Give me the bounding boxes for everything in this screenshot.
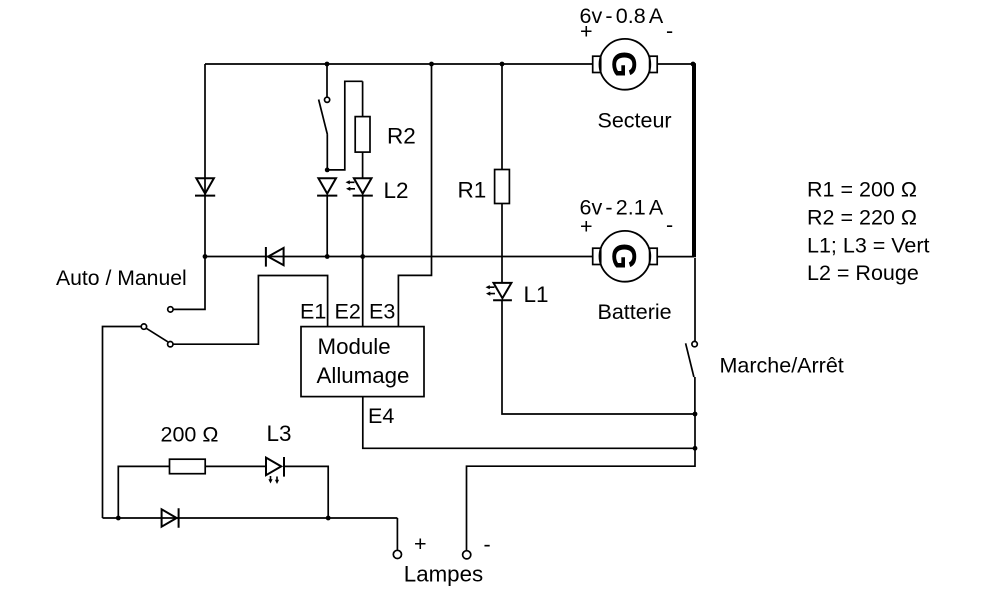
wire L1 down and right to switch [502,300,695,414]
wire upper branch left [118,466,169,518]
wire E4 [363,397,695,449]
wire thick right rail [692,63,696,257]
svg-text:R2: R2 [387,124,416,149]
svg-text:+: + [414,532,427,556]
wire L2 to bus [362,196,364,257]
svg-text:Module: Module [318,334,391,359]
switch Marche/Arret contact circle [692,341,697,346]
svg-text:R1: R1 [458,178,487,203]
generator Secteur right terminal box [650,56,658,72]
wire switch bottom [326,135,328,170]
LED L1 arrows [486,285,496,296]
wire E2 [362,257,364,327]
switch Auto/Manuel pole contact [141,324,146,329]
wire bus to AutoManuel top contact [173,257,205,310]
diode D3 on bus pointing left [266,247,284,267]
node bus x362 [360,254,365,259]
diode D2 middle [317,178,337,195]
wire R2 bottom lead [362,152,364,178]
generator Batterie left terminal box [593,248,601,264]
diode D1 left [195,178,215,195]
node junction top bus x327 [325,62,330,67]
node x695 y448 [693,446,698,451]
node switch-hook junction [325,168,330,173]
svg-text:R1 = 200 Ω: R1 = 200 Ω [807,178,917,202]
wire E3 [398,64,431,327]
resistor R1 [495,170,510,204]
svg-text:L1; L3 = Vert: L1; L3 = Vert [807,234,930,258]
svg-text:-: - [484,533,491,557]
svg-text:Lampes: Lampes [404,561,483,586]
wire R2 top lead [362,81,364,117]
node bottom x118 [116,516,121,521]
wire pole to left rail [103,327,142,519]
generator Batterie circle [600,231,651,282]
module box Module Allumage [301,327,424,397]
wire node to node [694,414,696,448]
wire to lampes minus [467,448,696,550]
wire R1 bottom lead [501,204,503,283]
generator Secteur circle [600,39,651,90]
wire rail to Marche switch [694,258,696,341]
node bottom x328 [326,516,331,521]
svg-text:E1: E1 [300,300,326,324]
node junction top bus x432 [429,62,434,67]
wire D2 to bus [326,196,328,257]
terminal lampes plus circle [393,550,401,558]
LED L2 arrows [346,180,356,191]
resistor R2 [355,117,370,153]
generator Secteur left terminal box [593,56,601,72]
wire R1 branch top [501,64,503,170]
svg-text:E3: E3 [369,300,395,324]
resistor 200ohm [170,459,206,474]
svg-text:L2: L2 [384,178,409,203]
LED L2 [353,178,373,195]
svg-text:L2 = Rouge: L2 = Rouge [807,261,919,285]
wire left branch vertical [204,64,206,257]
svg-text:Allumage: Allumage [317,363,410,388]
switch Marche/Arret blade [686,343,694,377]
svg-text:Marche/Arrêt: Marche/Arrêt [720,353,844,377]
svg-text:E4: E4 [368,404,394,428]
LED L1 [493,283,512,300]
terminal lampes minus circle [463,551,471,559]
switch Auto/Manuel blade [146,328,168,342]
svg-text:Secteur: Secteur [598,108,672,132]
wire R2 hook [327,81,362,170]
node bus x327 [325,254,330,259]
svg-text:-: - [666,19,673,43]
svg-text:G: G [605,51,643,77]
LED L3 pointing right [266,457,284,477]
svg-text:G: G [605,243,643,269]
svg-text:E2: E2 [335,300,361,324]
wire top bus [205,63,694,65]
svg-text:+: + [580,20,593,44]
svg-text:Batterie: Batterie [598,300,672,324]
switch Auto/Manuel top contact [168,307,173,312]
svg-text:R2 = 220 Ω: R2 = 220 Ω [807,205,917,229]
svg-text:Auto / Manuel: Auto / Manuel [56,267,187,290]
diode D4 bottom pointing right [162,508,179,528]
wire battery right [657,256,694,258]
generator Batterie right terminal box [650,248,658,264]
wire L3 right down [284,466,328,518]
svg-text:L3: L3 [267,421,292,446]
svg-text:-: - [666,213,673,237]
node junction top bus x502 [500,62,505,67]
wire to lampes plus [396,518,398,550]
wire bottom left rail corner [103,517,398,519]
node x695 y414 [693,412,698,417]
LED L3 arrows down [268,476,279,484]
switch S2 blade [319,100,328,135]
wire E1 [173,276,328,345]
wire middle bus [205,256,593,258]
wire switch bottom to node [694,377,696,414]
svg-text:L1: L1 [524,282,549,307]
switch Auto/Manuel bottom contact [168,342,173,347]
switch S2 contact circle [325,97,330,102]
node top right corner [691,62,696,67]
node bus left end [203,254,208,259]
svg-text:+: + [580,215,593,239]
svg-text:200 Ω: 200 Ω [161,423,219,447]
wire switch branch top [326,64,328,97]
wire resistor to L3 [205,465,265,467]
